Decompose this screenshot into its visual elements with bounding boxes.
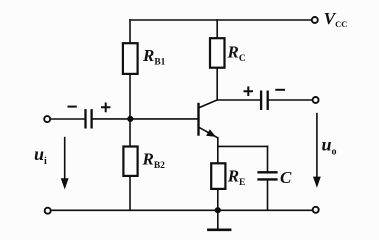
wire left branch lower [129, 176, 131, 210]
polarity minus C2 [276, 89, 284, 91]
capacitor C emitter bypass [259, 172, 277, 179]
resistor RB2 [123, 147, 137, 176]
svg-text:RE: RE [227, 167, 246, 188]
capacitor C2 output coupling [261, 92, 268, 109]
wire collector branch lower [216, 68, 218, 100]
svg-text:VCC: VCC [324, 9, 348, 29]
node emitter ground junction [215, 207, 221, 213]
polarity plus C1 [102, 104, 109, 112]
wire emitter to C [218, 145, 268, 147]
terminal input top [44, 116, 50, 122]
terminal output bottom [313, 207, 319, 213]
ground [208, 213, 230, 230]
svg-text:RC: RC [227, 43, 246, 64]
resistor RE [211, 163, 225, 189]
wire left branch upper [129, 20, 131, 43]
svg-text:RB1: RB1 [142, 46, 166, 67]
arrow uo [314, 114, 320, 187]
svg-text:RB2: RB2 [142, 150, 166, 171]
terminal Vcc [312, 17, 318, 23]
polarity minus C1 [69, 106, 76, 108]
wire left branch middle [129, 74, 131, 147]
wire output right [269, 99, 313, 101]
node base junction [127, 116, 133, 122]
svg-text:uo: uo [322, 135, 337, 158]
terminal output top [313, 97, 319, 103]
terminal input bottom [45, 208, 51, 214]
wire collector branch upper [216, 20, 218, 38]
wire input right [93, 118, 130, 120]
svg-text:C: C [280, 168, 292, 187]
capacitor C1 input coupling [86, 110, 92, 127]
svg-text:ui: ui [34, 144, 47, 167]
wire RE lower [217, 189, 219, 210]
resistor RB1 [123, 43, 138, 74]
wire input left [50, 118, 84, 120]
wire bottom rail [51, 209, 313, 211]
wire output left [217, 99, 260, 101]
wire base [130, 118, 197, 120]
arrow ui [62, 138, 68, 188]
resistor RC [210, 38, 225, 67]
wire top rail [130, 19, 312, 21]
wire C upper [267, 146, 269, 171]
transistor Q1 [199, 100, 218, 138]
wire C lower [267, 181, 269, 210]
polarity plus C2 [245, 87, 253, 95]
wire emitter vertical [217, 138, 219, 164]
